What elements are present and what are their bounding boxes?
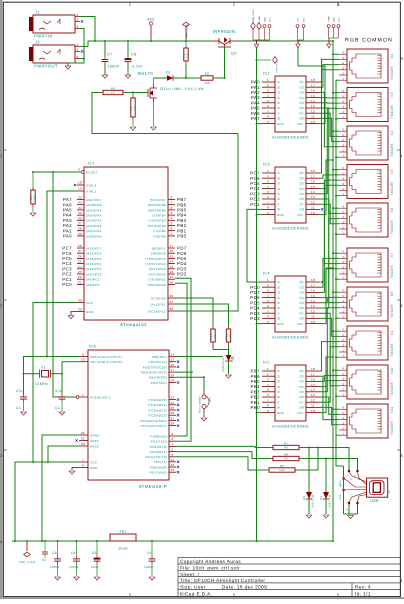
ground C3: [55, 577, 61, 580]
svg-text:18: 18: [171, 373, 175, 377]
IC6 pin AREF: [79, 440, 88, 442]
wire AGND trunk: [42, 435, 79, 541]
svg-text:J3: J3: [387, 490, 391, 494]
wire driver output 7 to K4 pin 5: [320, 113, 339, 136]
wire R5 to Q1 gate: [126, 92, 148, 94]
ground C2: [61, 402, 63, 411]
wire K6 pin6 to +VBB trunk: [333, 207, 339, 209]
wire driver output 11 to K7 pin 4: [320, 183, 339, 263]
svg-text:30: 30: [170, 307, 174, 311]
svg-text:PD2(INT0): PD2(INT0): [150, 445, 167, 449]
svg-text:D1: D1: [166, 71, 171, 75]
IC3 pin 3 input: [262, 182, 275, 184]
svg-text:1: 1: [267, 169, 269, 173]
wire RJ45 pin1 stub: [336, 79, 339, 81]
wire R9 left to gnd trunk: [257, 469, 267, 471]
IC6 pin PB1(OC1A): [169, 361, 176, 363]
svg-text:(RXD1)PB2: (RXD1)PB2: [148, 224, 166, 228]
svg-text:(A13)PC5: (A13)PC5: [86, 257, 102, 261]
svg-text:C3: C3: [52, 551, 57, 555]
svg-text:(AD0)PA0: (AD0)PA0: [86, 234, 102, 238]
svg-text:AVCC: AVCC: [90, 444, 100, 448]
IC1 pin PA7: [77, 199, 84, 201]
svg-text:PWR?OUT: PWR?OUT: [34, 64, 58, 69]
svg-text:100nF: 100nF: [69, 565, 79, 569]
wire VBUS to trunk: [336, 435, 344, 466]
svg-text:15: 15: [171, 358, 175, 362]
resistor R8: [270, 458, 273, 460]
svg-text:(ICP)PE0: (ICP)PE0: [151, 296, 166, 300]
IC2 pin 4 input: [262, 97, 275, 99]
svg-text:+VBB: +VBB: [258, 16, 261, 22]
IC4 pin 6 input: [262, 307, 275, 309]
IC4 pin 17 output: [306, 286, 320, 288]
svg-text:(A14)PC6: (A14)PC6: [86, 252, 102, 256]
svg-text:6: 6: [267, 104, 269, 108]
svg-text:C5: C5: [92, 551, 97, 555]
no-connect J2 pin2: [81, 50, 83, 52]
svg-text:I2: I2: [277, 285, 280, 289]
svg-text:10: 10: [81, 358, 85, 362]
svg-text:D3: D3: [302, 496, 306, 500]
svg-text:RESET: RESET: [86, 170, 98, 174]
svg-text:21: 21: [81, 437, 85, 441]
svg-text:9: 9: [267, 320, 269, 324]
wire driver output 19 to K8 pin 5: [320, 297, 339, 302]
svg-text:8: 8: [267, 206, 269, 210]
svg-text:O4: O4: [299, 96, 304, 100]
svg-text:ULN2803/UCN2901: ULN2803/UCN2901: [272, 425, 309, 429]
IC6 pin PB6 XTAL1: [79, 356, 88, 358]
svg-text:15: 15: [311, 294, 315, 298]
svg-text:PWR_FLAG: PWR_FLAG: [19, 561, 35, 564]
wire IC2 gnd to trunk: [257, 123, 263, 125]
svg-text:10: 10: [311, 120, 315, 124]
svg-text:I4: I4: [277, 296, 280, 300]
IC4 pin 1 input: [262, 281, 275, 283]
svg-text:O5: O5: [299, 390, 304, 394]
svg-text:PB7(XTAL2/TOSC2): PB7(XTAL2/TOSC2): [90, 360, 122, 364]
svg-text:14: 14: [311, 388, 315, 392]
svg-text:Date: 16 dec 2009: Date: 16 dec 2009: [222, 585, 267, 590]
IC2 pin 8 input: [262, 117, 275, 119]
wire IC1 PD1 to IC6 PD1 uart cross: [175, 278, 191, 441]
power port group 2: [296, 25, 299, 28]
svg-text:(A10)PC2: (A10)PC2: [86, 272, 102, 276]
svg-text:1K5: 1K5: [279, 468, 285, 472]
IC3 pin 2 input: [262, 177, 275, 179]
svg-text:(TXD0)PD1: (TXD0)PD1: [148, 278, 166, 282]
svg-text:1: 1: [82, 393, 84, 397]
IC1 pin GND: [77, 311, 84, 313]
svg-text:20: 20: [78, 307, 82, 311]
svg-text:I6: I6: [277, 197, 280, 201]
capacitor C8 4.7uF: [127, 41, 129, 57]
jumper JP1 boot loader: [202, 395, 206, 399]
svg-text:100: 100: [204, 81, 210, 85]
svg-text:26: 26: [171, 411, 175, 415]
wire IC5 gnd to trunk: [257, 412, 263, 414]
wire crystal right: [51, 373, 63, 375]
svg-text:LED/3mm: LED/3mm: [221, 357, 225, 372]
svg-text:17: 17: [170, 244, 174, 248]
IC2 pin 17 output: [306, 86, 320, 88]
svg-text:Title: DF10CH Atmolight Contr: Title: DF10CH Atmolight Controller: [180, 578, 265, 583]
svg-text:I4: I4: [277, 96, 280, 100]
wire IC3 COM up: [320, 160, 333, 215]
svg-text:PB0: PB0: [177, 234, 187, 239]
wire +VBB trunk to RJ45 commons: [332, 41, 334, 541]
IC3 pin 15 output: [306, 188, 320, 190]
power port group 3: [327, 25, 330, 28]
op-amp IC5 ULN2803 driver: [275, 365, 306, 421]
svg-text:32: 32: [78, 196, 82, 200]
IC2 pin 10 COM: [306, 123, 320, 125]
svg-text:PD1(TXD): PD1(TXD): [151, 440, 167, 444]
power arrow down 1: [254, 44, 258, 48]
svg-text:Q2: Q2: [231, 52, 237, 56]
wire K5 pin6 to +VBB trunk: [333, 169, 339, 171]
svg-text:(A15)PC7: (A15)PC7: [86, 246, 102, 250]
IC1 pin RESET: [81, 171, 84, 174]
wire R7 to D- net: [302, 448, 349, 471]
svg-text:PD6(AIN0): PD6(AIN0): [150, 465, 167, 469]
svg-text:O2: O2: [299, 176, 304, 180]
svg-text:O8: O8: [299, 406, 304, 410]
svg-text:TM11R5: TM11R5: [390, 66, 394, 80]
IC6 pin PC5(ADC5/SCL): [169, 425, 176, 427]
svg-text:O7: O7: [299, 111, 304, 115]
capacitor C3 100nF: [57, 541, 59, 556]
svg-text:C4: C4: [71, 551, 76, 555]
connector K4 RJ45: [339, 126, 394, 160]
svg-text:PD4(XCK/T0): PD4(XCK/T0): [145, 455, 167, 459]
svg-text:18: 18: [311, 169, 315, 173]
ground C8: [125, 75, 131, 78]
svg-text:15: 15: [170, 254, 174, 258]
svg-text:PD3(INT1): PD3(INT1): [150, 450, 167, 454]
svg-text:(A11)PC3: (A11)PC3: [86, 267, 101, 271]
svg-text:6: 6: [172, 453, 174, 457]
svg-text:16: 16: [311, 180, 315, 184]
inductor FB1 10uH: [110, 534, 136, 541]
svg-text:2: 2: [171, 227, 173, 231]
svg-text:K9: K9: [390, 330, 394, 335]
IC4 pin 18 output: [306, 281, 320, 283]
svg-text:14: 14: [311, 299, 315, 303]
svg-text:VCC: VCC: [86, 301, 94, 305]
IC1 pin PA3: [77, 219, 84, 221]
IC5 pin 1 input: [262, 370, 275, 372]
svg-text:(T1)PB1: (T1)PB1: [153, 229, 166, 233]
wire PD2 to R7: [176, 446, 270, 447]
wire IC3 gnd to trunk: [257, 214, 263, 216]
svg-text:I4: I4: [277, 385, 280, 389]
svg-text:FB1: FB1: [120, 530, 127, 534]
connector K8 RJ45: [339, 287, 394, 321]
svg-text:C7: C7: [107, 53, 112, 57]
svg-text:(AD2)PA2: (AD2)PA2: [86, 224, 102, 228]
ground USB: [348, 516, 354, 519]
svg-text:10: 10: [311, 409, 315, 413]
wire driver output 13 to K3 pin 3: [320, 108, 339, 194]
zone tick marks: [129, 2, 131, 6]
svg-text:8: 8: [82, 464, 84, 468]
IC2 pin 13 output: [306, 107, 320, 109]
ground IC6: [69, 471, 75, 474]
wire RJ45 pin1 stub: [336, 434, 339, 436]
svg-text:ULN2803/UCN2901: ULN2803/UCN2901: [272, 136, 309, 140]
IC3 pin 5 input: [262, 193, 275, 195]
svg-text:O8: O8: [299, 117, 304, 121]
svg-text:5: 5: [267, 99, 269, 103]
svg-text:16: 16: [170, 249, 174, 253]
wire driver output 21 to K10 pin 3: [320, 313, 339, 386]
svg-text:35: 35: [78, 211, 82, 215]
ground D2: [228, 361, 230, 374]
IC3 pin 14 output: [306, 193, 320, 195]
IC6 pin VCC: [79, 461, 88, 463]
svg-text:11: 11: [170, 275, 174, 279]
svg-text:I7: I7: [277, 111, 280, 115]
IC4 pin 15 output: [306, 297, 320, 299]
ic IC6 ATMEGA8-P: [88, 350, 169, 480]
svg-text:(AD7)PA7: (AD7)PA7: [86, 198, 102, 202]
svg-text:23: 23: [78, 270, 82, 274]
IC6 pin PD3(INT1): [169, 451, 176, 453]
svg-text:IRF9540N: IRF9540N: [212, 29, 235, 34]
wire IC1 gnd: [71, 312, 77, 316]
svg-text:1: 1: [267, 278, 269, 282]
connector K2 RJ45: [339, 49, 394, 83]
zener diode D4: [325, 459, 327, 493]
IC1 pin XTAL1: [77, 190, 84, 192]
svg-text:O4: O4: [299, 385, 304, 389]
wire RJ45 pin1 stub: [336, 317, 339, 319]
IC4 pin 4 input: [262, 297, 275, 299]
IC3 pin 16 output: [306, 182, 320, 184]
gnd trunk from power arrow: [256, 48, 258, 541]
capacitor C1 47p: [23, 394, 25, 397]
wire led join: [212, 345, 214, 350]
svg-text:I7: I7: [277, 400, 280, 404]
wire xtal2 node: [62, 362, 79, 394]
IC5 pin 16 output: [306, 380, 320, 382]
IC4 pin 11 output: [306, 317, 320, 319]
wire K8 pin6 to +VBB trunk: [333, 291, 339, 293]
svg-text:3V6 0,5W: 3V6 0,5W: [329, 494, 332, 508]
IC1 pin PC4: [77, 263, 84, 265]
svg-text:I8: I8: [277, 117, 280, 121]
wire K10 pin6 to +VBB trunk: [333, 369, 339, 371]
IC3 pin 6 input: [262, 198, 275, 200]
IC1 pin PA0: [77, 235, 84, 237]
wire VCC rail to IC6: [15, 462, 79, 541]
connector K10 RJ45: [339, 365, 394, 399]
svg-text:IC6: IC6: [89, 345, 96, 349]
svg-text:20: 20: [81, 442, 85, 446]
wire IC4 COM up: [320, 268, 333, 324]
IC1 pin PD1: [168, 278, 175, 280]
wire J2 pin3 to gnd: [80, 58, 84, 60]
svg-text:39: 39: [78, 232, 82, 236]
svg-text:I3: I3: [277, 182, 280, 186]
wire R8 to D+ net: [302, 459, 358, 471]
svg-text:3: 3: [0, 454, 3, 458]
svg-text:PWR_FLAG: PWR_FLAG: [276, 59, 279, 72]
capacitor C4 100nF: [76, 541, 78, 556]
wire driver output 9 to K2 pin 3: [320, 70, 339, 173]
svg-text:PC0: PC0: [62, 282, 72, 287]
svg-text:9: 9: [267, 211, 269, 215]
svg-text:18: 18: [78, 181, 82, 185]
IC5 pin 6 input: [262, 396, 275, 398]
wire IC1 PE1 to R11: [175, 304, 229, 326]
resistor R6: [198, 77, 201, 79]
svg-text:17: 17: [311, 283, 315, 287]
IC3 pin 17 output: [306, 177, 320, 179]
svg-text:14: 14: [170, 260, 174, 264]
power flag PWR_FLAG 2: [273, 57, 278, 64]
wire IC1 PD0 to IC6 PD0 uart cross: [175, 283, 187, 436]
ground C4: [74, 577, 80, 580]
connector K7 RJ45: [339, 248, 394, 282]
svg-text:1: 1: [76, 13, 78, 17]
IC3 pin 7 input: [262, 203, 275, 205]
svg-text:18: 18: [311, 367, 315, 371]
svg-text:O6: O6: [299, 306, 304, 310]
svg-text:XTAL1: XTAL1: [86, 189, 96, 193]
svg-text:3: 3: [76, 55, 78, 59]
svg-text:TM11R5: TM11R5: [390, 182, 394, 196]
transistor Q2 IRF9540N: [214, 38, 235, 47]
svg-text:13: 13: [170, 265, 174, 269]
IC1 pin PC3: [77, 268, 84, 270]
crystal X1: [42, 371, 49, 378]
svg-text:10uF: 10uF: [91, 565, 99, 569]
junction rail x42: [41, 540, 43, 542]
IC4 pin 9 GND: [262, 323, 275, 325]
IC2 pin 16 output: [306, 91, 320, 93]
junction pwrflag rail: [185, 40, 187, 42]
svg-text:8: 8: [267, 315, 269, 319]
svg-text:GND: GND: [90, 466, 98, 470]
wire driver output 5 to K3 pin 4: [320, 102, 339, 104]
svg-text:C2: C2: [55, 406, 60, 410]
svg-text:12: 12: [171, 463, 175, 467]
wire driver output 30 to K11 pin 3: [320, 407, 339, 424]
wire RJ45 pin1 stub: [336, 156, 339, 158]
IC1 pin PD7: [168, 247, 175, 249]
svg-text:(A8)PC0: (A8)PC0: [86, 283, 100, 287]
svg-text:7: 7: [267, 309, 269, 313]
svg-text:VCC: VCC: [90, 460, 98, 464]
svg-text:1: 1: [0, 154, 3, 158]
IC1 pin PE0: [168, 297, 175, 299]
wire PWM drive to R5: [92, 93, 238, 134]
wire driver output 22 to K9 pin 5: [320, 318, 339, 336]
op-amp IC3 ULN2803 driver: [275, 167, 306, 223]
svg-text:PA0: PA0: [63, 234, 72, 239]
wire driver output 17 to K5 pin 4: [320, 180, 339, 292]
svg-text:16: 16: [311, 289, 315, 293]
svg-text:Id: 1/1: Id: 1/1: [355, 592, 371, 597]
svg-text:TM11R5: TM11R5: [390, 382, 394, 396]
svg-text:I5: I5: [277, 192, 280, 196]
svg-text:IC1: IC1: [88, 162, 95, 166]
IC1 pin PB4: [168, 214, 175, 216]
IC1 pin PB2: [168, 225, 175, 227]
svg-text:PB5(SCK): PB5(SCK): [151, 381, 167, 385]
wire D1 to R6: [173, 77, 198, 79]
IC1 pin PD2: [168, 273, 175, 275]
wire R9 pullup to D-: [298, 448, 318, 471]
IC1 pin PC5: [77, 257, 84, 259]
IC1 pin PA6: [77, 204, 84, 206]
svg-text:PD0(RXD): PD0(RXD): [150, 434, 167, 438]
IC2 pin 2 input: [262, 86, 275, 88]
junction rail x15: [14, 540, 16, 542]
IC2 pin 5 input: [262, 102, 275, 104]
svg-text:(AD5)PA5: (AD5)PA5: [86, 208, 102, 212]
svg-text:C6: C6: [147, 551, 152, 555]
svg-text:1: 1: [267, 367, 269, 371]
wire RJ45 pin1 stub: [336, 278, 339, 280]
ground IC1: [68, 316, 74, 319]
svg-text:36: 36: [78, 216, 82, 220]
wire driver output 4 to K3 pin 5: [320, 97, 339, 99]
svg-text:22: 22: [81, 431, 85, 435]
svg-text:3: 3: [267, 180, 269, 184]
svg-text:100nF: 100nF: [50, 565, 60, 569]
svg-text:I8: I8: [277, 208, 280, 212]
svg-text:VCC: VCC: [269, 17, 272, 22]
no-connect J1 pin2: [81, 20, 83, 22]
svg-text:15: 15: [311, 383, 315, 387]
wire R2 to gate node: [185, 64, 187, 78]
svg-text:I4: I4: [277, 187, 280, 191]
svg-text:I6: I6: [277, 106, 280, 110]
svg-text:2: 2: [267, 83, 269, 87]
IC2 pin 11 output: [306, 117, 320, 119]
resistor R7: [270, 447, 273, 449]
wire RJ45 pin1 stub: [336, 395, 339, 397]
wire RJ45 pin1 stub: [336, 195, 339, 197]
wire K3 pin6 to +VBB trunk: [333, 92, 339, 94]
ic IC1 ATmega162: [84, 167, 168, 320]
svg-text:22: 22: [78, 275, 82, 279]
IC1 pin PE1: [168, 303, 175, 305]
transistor Q1 BS170: [148, 84, 157, 102]
svg-text:6: 6: [267, 304, 269, 308]
svg-text:5: 5: [267, 388, 269, 392]
IC5 pin 13 output: [306, 396, 320, 398]
svg-text:9: 9: [267, 409, 269, 413]
svg-text:1: 1: [400, 154, 403, 158]
svg-text:O2: O2: [299, 374, 304, 378]
wire K4 pin6 to +VBB trunk: [333, 130, 339, 132]
svg-text:13: 13: [171, 468, 175, 472]
IC1 pin PC2: [77, 273, 84, 275]
svg-text:PB0: PB0: [251, 405, 261, 410]
ground D3: [306, 515, 312, 518]
connector J3 USB: [367, 478, 388, 497]
svg-text:O3: O3: [299, 91, 304, 95]
svg-text:6: 6: [267, 393, 269, 397]
IC2 pin 3 input: [262, 91, 275, 93]
svg-text:47p: 47p: [16, 389, 23, 393]
op-amp IC4 ULN2803 driver: [275, 276, 306, 332]
